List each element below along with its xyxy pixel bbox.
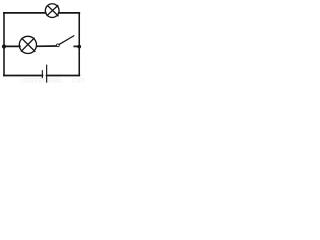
switch S1 lever (open) bbox=[59, 36, 74, 45]
wire switch to right vertical bbox=[74, 45, 79, 47]
wire top-right (lamp L1 to node B) bbox=[59, 12, 79, 14]
lamp L2 (middle) bbox=[19, 36, 36, 53]
wire top-left (node A to lamp L1) bbox=[4, 12, 46, 14]
background bbox=[0, 0, 91, 83]
battery B1 long plate (positive) bbox=[46, 65, 48, 82]
wire left vertical bbox=[3, 13, 5, 76]
battery B1 short plate (negative) bbox=[41, 71, 43, 78]
wire lamp L2 to switch S1 bbox=[37, 45, 57, 47]
junction dot right bbox=[77, 45, 81, 49]
switch S1 pivot bbox=[57, 44, 60, 47]
wire middle-left (junction to lamp L2) bbox=[4, 45, 20, 47]
lamp L1 (top) bbox=[45, 4, 59, 18]
wire bottom-left (to battery) bbox=[4, 75, 42, 77]
wire right vertical bbox=[78, 13, 80, 76]
wire bottom-right (battery to right vertical) bbox=[47, 75, 80, 77]
junction dot left bbox=[2, 44, 6, 48]
